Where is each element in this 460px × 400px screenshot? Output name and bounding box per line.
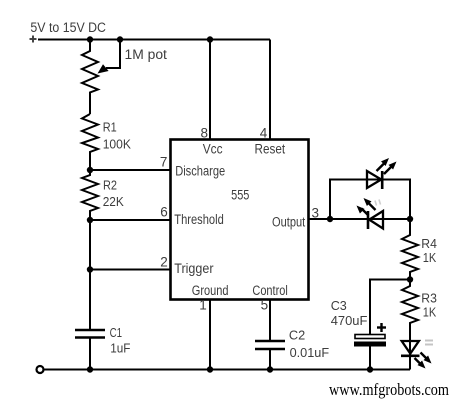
wire pin1 ground xyxy=(209,299,211,370)
resistor R3 xyxy=(402,280,418,356)
capacitor C3 electrolytic xyxy=(354,335,386,347)
wire pin6 threshold xyxy=(90,219,170,221)
wire pin8 drop xyxy=(209,40,211,140)
wire pin2 trigger xyxy=(90,269,170,271)
node top rail wiper xyxy=(117,36,123,42)
wire top rail xyxy=(38,39,270,41)
wire bottom rail xyxy=(44,369,411,371)
svg-text:6: 6 xyxy=(160,205,168,220)
plus terminal xyxy=(30,36,37,43)
svg-text:www.mfgrobots.com: www.mfgrobots.com xyxy=(329,380,449,399)
faint glow mark xyxy=(425,341,433,345)
resistor R4 xyxy=(402,219,418,280)
LED D3 xyxy=(401,341,433,369)
svg-text:R4: R4 xyxy=(421,236,437,251)
svg-text:8: 8 xyxy=(201,125,209,140)
potentiometer 1M pot xyxy=(82,40,98,115)
faint glow mark xyxy=(375,200,381,206)
wire pin7 discharge xyxy=(90,169,170,171)
svg-text:R2: R2 xyxy=(103,177,117,192)
wire to C3 xyxy=(370,280,410,335)
svg-text:Vcc: Vcc xyxy=(203,142,223,157)
node rail C1 xyxy=(87,366,93,372)
wire LED3 to rail xyxy=(409,355,411,370)
node trigger xyxy=(87,266,93,272)
wire pin3 output xyxy=(309,218,331,220)
svg-text:C2: C2 xyxy=(289,328,305,343)
wire LED top branch xyxy=(330,180,410,220)
capacitor C1 xyxy=(75,330,105,338)
node rail C3 xyxy=(367,366,373,372)
svg-text:C1: C1 xyxy=(110,325,123,340)
svg-text:7: 7 xyxy=(160,155,168,170)
wire C2 to rail xyxy=(269,349,271,370)
svg-text:R3: R3 xyxy=(421,291,437,306)
node LED right xyxy=(407,216,413,222)
wire LED bottom branch xyxy=(330,218,410,220)
svg-text:Discharge: Discharge xyxy=(175,164,225,179)
svg-text:R1: R1 xyxy=(103,119,117,134)
svg-text:Threshold: Threshold xyxy=(174,212,224,227)
wire C1 to rail xyxy=(89,338,91,370)
terminal open circle xyxy=(37,366,44,373)
capacitor C2 xyxy=(255,341,285,349)
svg-text:555: 555 xyxy=(231,188,249,203)
svg-text:0.01uF: 0.01uF xyxy=(290,345,330,360)
svg-text:470uF: 470uF xyxy=(331,313,368,328)
svg-text:22K: 22K xyxy=(103,194,124,209)
svg-text:5V to 15V DC: 5V to 15V DC xyxy=(30,20,106,35)
resistor R1 xyxy=(82,114,98,170)
node output xyxy=(327,216,333,222)
node R1 R2 discharge xyxy=(87,167,93,173)
svg-text:2: 2 xyxy=(160,255,168,270)
IC U1 555 box xyxy=(171,140,309,300)
wire reset drop xyxy=(269,40,271,140)
svg-text:1K: 1K xyxy=(423,250,437,265)
wire pin5 control xyxy=(269,299,271,341)
svg-text:1M pot: 1M pot xyxy=(125,47,168,62)
svg-text:100K: 100K xyxy=(103,137,131,152)
wire trigger to C1 xyxy=(89,270,91,331)
node rail C2 xyxy=(267,366,273,372)
svg-text:Trigger: Trigger xyxy=(174,261,214,276)
capacitor C3 plus sign xyxy=(377,323,386,332)
resistor R2 xyxy=(82,170,98,220)
node threshold xyxy=(87,217,93,223)
node top rail pot xyxy=(87,36,93,42)
wire pot wiper xyxy=(98,40,121,74)
svg-text:5: 5 xyxy=(261,298,269,313)
svg-text:Reset: Reset xyxy=(255,142,286,157)
svg-text:1: 1 xyxy=(199,298,207,313)
svg-text:Output: Output xyxy=(272,215,305,230)
wire C3 to rail xyxy=(369,347,371,370)
svg-text:C3: C3 xyxy=(331,298,347,313)
svg-text:Control: Control xyxy=(252,283,287,298)
node rail pin1 xyxy=(207,366,213,372)
svg-text:4: 4 xyxy=(260,125,268,140)
svg-text:1uF: 1uF xyxy=(110,341,130,356)
svg-text:1K: 1K xyxy=(423,305,437,320)
LED D2 xyxy=(357,198,384,229)
svg-text:Ground: Ground xyxy=(192,283,229,298)
node top rail pin8 xyxy=(207,36,213,42)
LED D1 xyxy=(367,158,397,189)
node R4 R3 C3 xyxy=(407,276,413,282)
wire threshold to trigger xyxy=(89,220,91,270)
